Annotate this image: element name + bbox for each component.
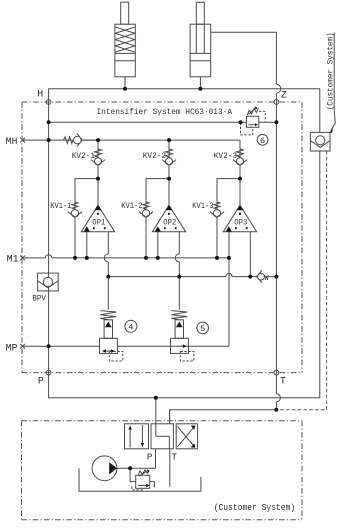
wire: MH header line y=122.3 [49, 121, 277, 123]
wire: MH bus y=140.1 [22, 139, 240, 141]
svg-text:MP: MP [6, 344, 18, 355]
svg-text:BPV: BPV [32, 295, 46, 304]
relief valve (customer) [130, 468, 154, 490]
label: customer system right (vertical with underline and leader) [326, 32, 336, 133]
node: CY1 port on bus [123, 87, 127, 91]
pump [92, 456, 156, 481]
wire: valve B top port drop [169, 410, 171, 424]
check valve W on return bus [257, 271, 270, 284]
node: pump outlet / relief [128, 466, 132, 470]
port P [38, 370, 51, 387]
wire: top cylinder bus y=88.7 from 48.6 to 319.8 [49, 89, 320, 133]
cylinder CY2 [190, 2, 211, 89]
intensifier OP1 [81, 179, 114, 277]
node: M1 / KV1-2 [144, 256, 148, 260]
circled 4 [125, 320, 137, 332]
check valve KV1-2 [139, 202, 153, 217]
wire: CY2 side port to Z line [211, 32, 277, 84]
wire: valve P bottom port [155, 449, 157, 469]
svg-text:P: P [147, 451, 153, 462]
port T [274, 370, 286, 387]
svg-text:Intensifier System HC63-013-A: Intensifier System HC63-013-A [97, 107, 233, 117]
svg-text:T: T [280, 377, 286, 388]
node: MH / KV2-1 [96, 138, 100, 142]
svg-text:M1: M1 [7, 255, 19, 266]
node: KV2-1 branch [96, 177, 100, 181]
port Z [274, 90, 287, 104]
directional valve 4/3 body [125, 424, 198, 463]
svg-text:KV1-1: KV1-1 [50, 202, 71, 211]
wire: right-side solid vertical x=319.8 below check square down to y=397.8 then left to valve-A junction [156, 151, 320, 398]
wire: OP return bus y=276.6 [108, 276, 226, 278]
customer check valve (top right) [310, 132, 330, 151]
node: CY2 port on bus [198, 87, 202, 91]
check valve KV2-1 [91, 140, 105, 179]
wire: branch y=178.6 ch1 and KV1-1 drop [75, 179, 98, 258]
wire: A drop from dot 155.8,397.8 to valve [155, 398, 157, 424]
wire: T line x=276.4 from y=122.3 to dashed corner with hop over y=397.8 [275, 122, 277, 394]
svg-text:OP1: OP1 [92, 219, 105, 227]
port M1 with plug marker [7, 255, 25, 266]
node: MP / P line [47, 344, 51, 348]
wire: valve T bottom port into tank [169, 449, 171, 487]
node: M1 / KV1-3 [215, 256, 219, 260]
customer system dash-dot box (bottom) [22, 421, 303, 520]
port MH with plug marker [6, 137, 26, 148]
wire: valve5 right to OP3 left riser x=229 with hop over return bus [228, 258, 230, 346]
check valve KV2-2 [162, 140, 176, 179]
circled 5 [197, 322, 209, 334]
cylinder CY1 (spring return) [115, 2, 135, 89]
dash-dot system frame (22,102)-(302,372.6) [22, 102, 302, 373]
svg-text:KV2-3: KV2-3 [214, 152, 237, 161]
svg-text:H: H [37, 89, 43, 100]
wire: customer dashed line right side [276, 151, 326, 410]
check valve KV1-1 [68, 202, 82, 217]
svg-text:Z: Z [281, 90, 287, 101]
node: MH / KV2-2 [167, 138, 171, 142]
wire: branch y=178.6 ch2 and KV1-2 drop [146, 179, 169, 258]
intensifier OP3 [223, 179, 256, 277]
wire: MP bus y=346.2 segments [22, 345, 100, 347]
port H [37, 89, 51, 104]
wire: branch y=178.6 ch3 and KV1-3 drop [217, 179, 240, 258]
svg-text:KV1-2: KV1-2 [121, 202, 142, 211]
node: KV2-2 branch [167, 177, 171, 181]
node: return bus / T line [274, 275, 278, 279]
node: T line / B line [274, 408, 278, 412]
svg-text:6: 6 [260, 136, 265, 146]
node: return bus / OP2 right / valve5 [177, 275, 181, 279]
svg-text:P: P [38, 376, 44, 387]
node: header / Z line [274, 120, 278, 124]
svg-text:(Customer System): (Customer System) [214, 502, 296, 513]
check valve KV1-3 [210, 202, 224, 217]
circled 6 [257, 134, 268, 146]
svg-text:4: 4 [128, 323, 133, 333]
svg-text:5: 5 [200, 324, 205, 334]
node: M1 / OP3 left [227, 256, 231, 260]
node: return bus / OP3 right [248, 275, 252, 279]
svg-text:KV2-2: KV2-2 [143, 152, 166, 161]
gauge-port check symbol M on MH bus [64, 134, 99, 147]
bypass check valve BPV on P line [38, 273, 59, 291]
wire: P line vertical x=48.6 from top bus to P port corner [49, 102, 156, 398]
check valve KV2-3 [233, 140, 247, 179]
pressure reducing valve 6 on header line [241, 106, 266, 135]
svg-text:OP3: OP3 [234, 219, 247, 227]
tank [79, 468, 201, 491]
svg-text:OP2: OP2 [163, 219, 176, 227]
cartridge valve 5 [171, 277, 194, 361]
svg-text:MH: MH [6, 137, 18, 148]
node: P line / header [47, 120, 51, 124]
node: return bus / OP1 right / valve4 [106, 275, 110, 279]
cartridge valve 4 [100, 277, 123, 361]
intensifier OP2 [152, 179, 185, 277]
node: M1 / OP1 left [85, 256, 89, 260]
svg-text:KV2-1: KV2-1 [72, 152, 95, 161]
wire: M1 bus y=257.9 with hop over P line [22, 257, 45, 259]
node: header / valve6 pilot [239, 120, 243, 124]
node: P supply / valve A branch [154, 396, 158, 400]
node: P line / MH bus [47, 138, 51, 142]
wire hop: Z vertical over cylinder bus [276, 84, 280, 93]
port MP with plug marker [6, 344, 26, 355]
wire: B line y=409.8 solid part [170, 410, 277, 424]
node: M1 / KV1-1 [73, 256, 77, 260]
svg-text:T: T [171, 451, 177, 462]
node: KV2-3 branch [238, 177, 242, 181]
svg-text:KV1-3: KV1-3 [192, 202, 213, 211]
node: M1 / OP2 left [156, 256, 160, 260]
